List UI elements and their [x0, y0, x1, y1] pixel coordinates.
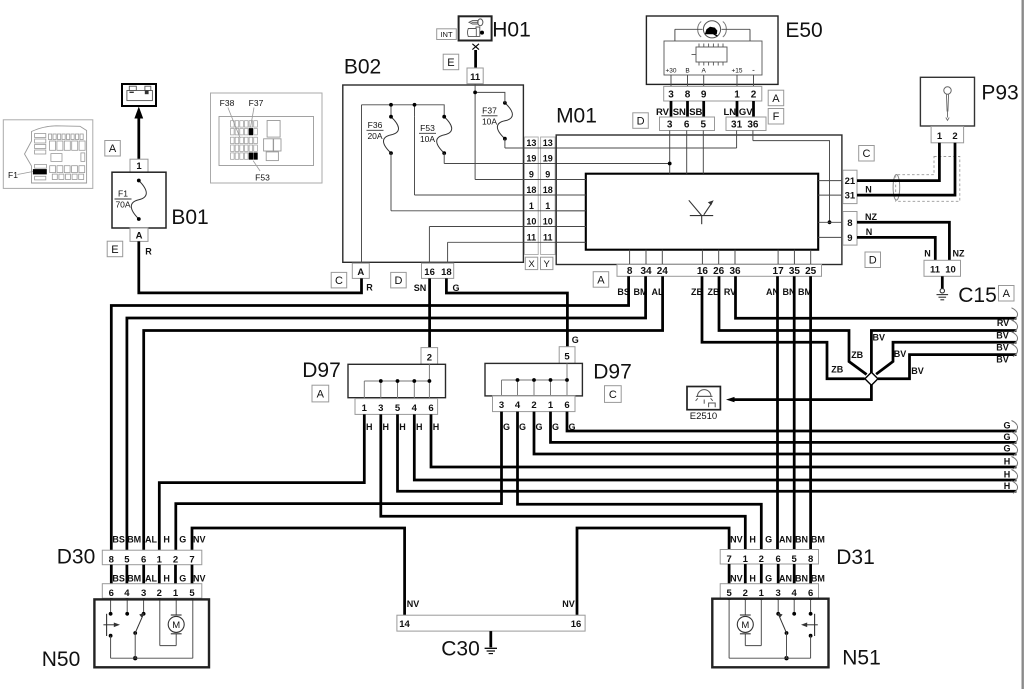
svg-text:31: 31 [731, 120, 743, 131]
svg-text:A: A [109, 143, 117, 155]
shield ellipse on P93 wires [893, 175, 900, 201]
connector strip X (B02-M01) [525, 137, 539, 255]
svg-text:5: 5 [189, 588, 195, 599]
connector D97 left body [348, 364, 446, 397]
ground C15 [941, 276, 944, 288]
svg-text:NV: NV [730, 535, 743, 545]
svg-text:A: A [317, 389, 325, 401]
svg-text:B02: B02 [344, 56, 381, 79]
label box D (B02 pins 16/18) [391, 272, 407, 288]
svg-text:C: C [862, 148, 870, 160]
svg-text:4: 4 [792, 588, 798, 599]
wire BS: M01 pin 8 to D30 pin 8 [111, 276, 628, 550]
wire BN: M01 pin 35 to D31 pin 5 [793, 276, 796, 549]
svg-text:G: G [1003, 421, 1010, 431]
svg-text:G: G [1003, 432, 1010, 442]
svg-text:M: M [172, 620, 180, 631]
switch/motor unit N51 body [712, 599, 828, 668]
label box D (M01 top connector) [633, 113, 649, 129]
svg-text:20A: 20A [367, 131, 382, 141]
label box D (M01 right lower connector) [865, 252, 881, 268]
wire: H01 INT to B02 pin 11 [474, 50, 477, 69]
svg-text:6: 6 [808, 588, 813, 599]
svg-text:NV: NV [407, 599, 420, 609]
svg-text:3: 3 [667, 120, 673, 131]
label box A (D97 left) [312, 385, 329, 402]
svg-text:X: X [528, 259, 535, 270]
svg-text:1: 1 [362, 403, 368, 414]
svg-text:NV: NV [193, 574, 206, 584]
svg-text:14: 14 [399, 619, 410, 630]
label box INT (ignition INT terminal) [437, 29, 457, 40]
svg-text:G: G [503, 422, 510, 432]
svg-text:NV: NV [562, 599, 575, 609]
inset illustration: battery junction unit with fuse F1 highlighted [3, 120, 93, 189]
pins 16 18 of B02 [422, 263, 454, 278]
label box A (E50 connector) [768, 90, 784, 106]
svg-text:P93: P93 [981, 82, 1018, 105]
sensor P93 body and icon [920, 77, 974, 126]
svg-text:6: 6 [428, 403, 433, 414]
wire BV: junction to right edge (3rd, east) [878, 355, 1017, 379]
wire H: D97L pin 5 to right edge [398, 414, 1017, 491]
B02 internal: pin 11 feed to F37 and to pin row 9 [475, 84, 505, 180]
svg-text:LN: LN [723, 107, 736, 118]
fusebox B02 body [343, 85, 524, 262]
svg-text:10A: 10A [482, 117, 497, 127]
E50 icon: IC chip [696, 47, 727, 62]
pins 1 2 of P93 [931, 127, 964, 143]
label box E (B01 lower connector) [107, 241, 123, 257]
pin 2 of D97 left [421, 348, 438, 365]
wires: B02 internal rows to M01 via strips [505, 139, 737, 148]
label box F (E50 connector) [768, 109, 784, 125]
wire: M01 pin 9 N to C15 pin 11 [857, 237, 935, 260]
M01 internal: top pin 31 drop to row 13 [736, 131, 738, 149]
svg-text:6: 6 [684, 120, 690, 131]
wires E50 to M01 (RV SN SB LN GV) [670, 101, 673, 117]
label box C (D97 right) [605, 386, 622, 403]
svg-text:B01: B01 [171, 206, 208, 229]
svg-text:H: H [749, 535, 756, 545]
svg-text:8: 8 [627, 266, 633, 277]
module M01 body [556, 135, 842, 265]
svg-text:3: 3 [668, 90, 674, 101]
wire AN: M01 pin 17 to D31 pin 6 [776, 276, 779, 549]
svg-text:Y: Y [544, 259, 551, 270]
module E50 body [646, 16, 778, 84]
svg-text:1: 1 [157, 554, 163, 565]
wire ZB: M01 pin 16 to junction (west) [702, 276, 865, 379]
svg-text:6: 6 [141, 554, 146, 565]
N51 internal contacts and motor [729, 600, 811, 658]
fuse F37 10A [497, 103, 512, 139]
svg-text:A: A [597, 274, 605, 286]
M01 internal: left pin lines [556, 180, 586, 243]
svg-text:4: 4 [412, 403, 418, 414]
wire: P93 pin 2 to M01 pin 31 (N) [857, 143, 955, 195]
svg-text:C: C [609, 389, 617, 401]
wire G: D97R pin 3 to D30 pin 2 [176, 412, 502, 551]
connector C30 body with pins 14 16 [397, 615, 585, 631]
wire G: D97R pin 2 to right edge [534, 412, 1017, 454]
svg-text:G: G [1003, 444, 1010, 454]
pins 8 34 24 16 26 36 17 35 25 of M01 (bottom) [617, 265, 822, 277]
svg-text:7: 7 [189, 554, 194, 565]
svg-text:16: 16 [424, 267, 435, 278]
svg-text:5: 5 [124, 554, 130, 565]
wire G: B02 pin 18 to D97 pin 5 [446, 278, 567, 346]
wire NV: D30 pin 7 to C30 pin 14 [192, 528, 405, 615]
svg-text:F36: F36 [368, 120, 383, 130]
svg-text:8: 8 [847, 218, 852, 229]
svg-text:9: 9 [701, 90, 707, 101]
svg-text:N: N [865, 185, 872, 195]
svg-text:F1: F1 [118, 189, 128, 199]
svg-text:1: 1 [545, 201, 550, 211]
wire R: B01 to B02 pin A [139, 241, 362, 293]
svg-text:H: H [416, 422, 423, 432]
svg-text:16: 16 [571, 619, 582, 630]
svg-text:G: G [765, 574, 772, 584]
svg-text:ZB: ZB [831, 365, 843, 375]
label box A (C15) [999, 286, 1015, 302]
svg-text:10: 10 [945, 265, 956, 276]
svg-text:35: 35 [789, 266, 801, 277]
svg-text:4: 4 [124, 588, 130, 599]
svg-text:AL: AL [145, 535, 157, 545]
svg-text:N50: N50 [42, 648, 81, 671]
svg-text:8: 8 [808, 554, 813, 565]
svg-text:INT: INT [440, 30, 453, 39]
svg-text:11: 11 [527, 233, 537, 243]
svg-text:3: 3 [776, 588, 781, 599]
svg-text:N: N [866, 227, 873, 237]
svg-text:G: G [179, 574, 186, 584]
svg-text:H: H [383, 422, 390, 432]
svg-text:AN: AN [779, 535, 792, 545]
M01 internal: bottom pin stubs [630, 250, 811, 265]
svg-text:1: 1 [743, 554, 749, 565]
pins 8 5 6 1 2 7 of D30 [102, 550, 202, 565]
wire stubs D31 to N51 [728, 598, 731, 600]
svg-text:18: 18 [441, 267, 452, 278]
svg-text:2: 2 [759, 554, 764, 565]
E2510 courtesy light icon [687, 387, 720, 410]
wire break mark X above H01 wire [472, 44, 479, 50]
M01 inner control unit box [586, 174, 818, 250]
svg-text:+30: +30 [665, 68, 676, 75]
ground at C30 [489, 631, 492, 647]
svg-text:2: 2 [157, 588, 162, 599]
svg-text:BV: BV [894, 349, 907, 359]
fuse F53 10A [437, 117, 452, 153]
svg-text:BV: BV [996, 331, 1009, 341]
fuse F36 20A [384, 117, 399, 153]
svg-text:9: 9 [545, 170, 550, 180]
wire H: D97L pin 3 to D31 pin 1 [381, 414, 746, 549]
svg-text:BS: BS [112, 574, 125, 584]
svg-text:A: A [702, 68, 707, 75]
svg-text:9: 9 [529, 170, 534, 180]
svg-text:G: G [179, 535, 186, 545]
M01 internal: top pin 36 GV to right pin 8 [753, 131, 830, 223]
svg-text:C30: C30 [441, 638, 480, 661]
wire RV: M01 pin 36 to right edge [736, 276, 1017, 318]
svg-text:D97: D97 [302, 359, 341, 382]
M01 internal: top pin 3 drop (junction with row 19) [669, 131, 671, 174]
svg-text:3: 3 [499, 400, 504, 411]
wire G: D97R pin 6 to right edge [567, 412, 1017, 431]
pins 7 1 2 6 5 8 of D31 [720, 550, 818, 565]
svg-text:F37: F37 [249, 98, 264, 108]
wire ZB: M01 pin 26 to junction (northwest) [719, 276, 867, 374]
svg-text:D30: D30 [57, 546, 96, 569]
svg-text:1: 1 [136, 161, 142, 172]
label box A (M01 bottom connector) [593, 272, 609, 288]
svg-text:8: 8 [109, 554, 114, 565]
pins 11 10 of C15 [924, 260, 961, 276]
svg-text:-: - [752, 66, 755, 75]
svg-text:9: 9 [847, 233, 852, 244]
svg-text:18: 18 [543, 185, 553, 195]
svg-text:AL: AL [145, 574, 157, 584]
svg-text:H: H [399, 422, 406, 432]
svg-text:G: G [535, 422, 542, 432]
wire BM: M01 pin 34 to D30 pin 5 [127, 276, 646, 550]
svg-text:5: 5 [792, 554, 798, 565]
svg-text:A: A [772, 93, 780, 105]
wire SN: B02 pin 16 to D97 pin 2 [428, 278, 431, 347]
E50 inner unit box [664, 41, 762, 75]
pin A of B02 [352, 263, 369, 278]
svg-text:5: 5 [701, 120, 707, 131]
svg-text:BM: BM [811, 574, 825, 584]
svg-text:36: 36 [729, 266, 741, 277]
svg-text:1: 1 [173, 588, 179, 599]
svg-text:H: H [1004, 481, 1011, 491]
wire AL: M01 pin 24 to D30 pin 6 [144, 276, 663, 550]
svg-text:BV: BV [873, 333, 886, 343]
pins 3 6 5 of M01 (top) [660, 117, 715, 131]
pins 5 2 1 3 4 6 of D31 (lower row) [720, 584, 818, 599]
svg-text:6: 6 [776, 554, 781, 565]
svg-text:D: D [637, 116, 645, 128]
pins 8 9 of M01 (right) [843, 212, 857, 246]
svg-text:2: 2 [531, 400, 536, 411]
svg-text:1: 1 [734, 90, 740, 101]
connector D97 right body [485, 363, 582, 396]
H01 ignition switch icon (key and lock) [459, 16, 492, 40]
wire BM: M01 pin 25 to D31 pin 8 [809, 276, 812, 549]
wire: M01 pin 8 NZ to C15 pin 10 [857, 222, 949, 260]
svg-text:RV: RV [656, 107, 670, 118]
svg-text:F37: F37 [482, 106, 497, 116]
junction diamond node [865, 372, 878, 385]
svg-text:1: 1 [759, 588, 765, 599]
wire H: D97L pin 6 to right edge [431, 414, 1017, 467]
svg-text:5: 5 [395, 403, 401, 414]
svg-text:GV: GV [739, 107, 753, 118]
svg-text:16: 16 [697, 266, 709, 277]
svg-text:F53: F53 [255, 173, 270, 183]
svg-text:19: 19 [526, 154, 536, 164]
svg-text:F38: F38 [220, 98, 235, 108]
svg-text:+15: +15 [731, 68, 742, 75]
svg-text:10A: 10A [420, 134, 435, 144]
label box X [525, 257, 537, 269]
svg-text:2: 2 [751, 90, 757, 101]
svg-text:5: 5 [564, 351, 570, 362]
svg-text:E: E [111, 244, 118, 256]
svg-text:C15: C15 [958, 284, 997, 307]
pin 5 of D97 right [559, 347, 575, 364]
wire H: D97L pin 1 to D30 pin 1 [159, 414, 364, 550]
svg-text:A: A [357, 267, 364, 278]
svg-text:BN: BN [795, 574, 808, 584]
svg-text:M01: M01 [556, 105, 597, 128]
svg-text:11: 11 [470, 72, 481, 83]
svg-text:SB: SB [689, 107, 702, 118]
svg-text:H: H [1004, 470, 1011, 480]
right page border [1022, 0, 1024, 689]
svg-text:6: 6 [109, 588, 114, 599]
svg-text:21: 21 [845, 176, 856, 187]
wire H: D97L pin 4 to right edge [414, 414, 1016, 480]
M01 internal: right pin lines 21 31 8 9 [818, 181, 843, 238]
svg-text:26: 26 [713, 266, 725, 277]
svg-text:G: G [519, 422, 526, 432]
label box C (B02 pin A) [331, 272, 347, 288]
svg-text:19: 19 [543, 154, 553, 164]
svg-text:10: 10 [526, 217, 536, 227]
svg-text:8: 8 [685, 90, 691, 101]
svg-text:NZ: NZ [865, 212, 877, 222]
svg-text:BV: BV [996, 355, 1009, 365]
svg-text:D: D [869, 255, 877, 267]
svg-text:D31: D31 [836, 546, 875, 569]
svg-text:G: G [765, 535, 772, 545]
svg-text:G: G [552, 422, 559, 432]
pin 11 of B02 (top) [467, 68, 483, 84]
svg-text:A: A [136, 230, 143, 241]
svg-text:BV: BV [911, 366, 924, 376]
svg-text:H: H [163, 535, 170, 545]
svg-text:F1: F1 [8, 170, 18, 180]
D97 right internal bus [502, 363, 568, 396]
svg-text:34: 34 [640, 266, 652, 277]
svg-text:NZ: NZ [953, 249, 965, 259]
svg-text:H: H [749, 574, 756, 584]
svg-text:H: H [433, 422, 440, 432]
svg-text:25: 25 [805, 266, 817, 277]
svg-text:36: 36 [747, 120, 759, 131]
svg-text:RV: RV [997, 318, 1009, 328]
svg-text:D: D [394, 275, 402, 287]
svg-text:D97: D97 [593, 361, 632, 384]
svg-text:13: 13 [543, 138, 553, 148]
svg-text:H: H [1004, 457, 1011, 467]
wire BV: junction to right edge (1st) [871, 331, 1016, 373]
svg-text:AN: AN [779, 574, 792, 584]
switch/motor unit N50 body [94, 599, 209, 667]
svg-text:SN: SN [673, 107, 686, 118]
svg-text:A: A [1003, 288, 1011, 300]
pin 1 of B01 [130, 159, 148, 172]
svg-text:E50: E50 [785, 19, 822, 42]
svg-text:N: N [924, 249, 931, 259]
svg-text:R: R [366, 283, 373, 293]
svg-text:5: 5 [726, 588, 732, 599]
wire: junction to E2510 (arrow) [735, 385, 872, 400]
svg-text:2: 2 [173, 554, 178, 565]
pins 6 4 3 2 1 5 of D30 (lower row) [102, 584, 202, 599]
svg-text:G: G [572, 335, 579, 345]
svg-text:2: 2 [743, 588, 748, 599]
svg-text:7: 7 [726, 554, 731, 565]
D97 left internal bus [364, 364, 429, 398]
svg-text:SN: SN [414, 283, 427, 293]
svg-text:G: G [452, 283, 459, 293]
svg-text:13: 13 [526, 138, 536, 148]
svg-text:M: M [741, 620, 749, 631]
svg-text:1: 1 [529, 201, 534, 211]
svg-text:3: 3 [141, 588, 146, 599]
svg-text:BM: BM [127, 535, 141, 545]
svg-text:BM: BM [127, 574, 141, 584]
svg-text:4: 4 [515, 400, 521, 411]
svg-text:H: H [163, 574, 170, 584]
svg-text:24: 24 [657, 266, 669, 277]
svg-text:C: C [335, 275, 343, 287]
wire BV: junction to right edge (2nd, northeast) [876, 342, 1016, 374]
svg-text:6: 6 [564, 400, 569, 411]
svg-text:BN: BN [795, 535, 808, 545]
N50 internal contacts and motor [111, 601, 193, 659]
wire G: D97R pin 1 to right edge [551, 412, 1017, 443]
svg-text:F: F [773, 111, 780, 123]
wire stubs D30 row1 to row2 [110, 565, 113, 584]
svg-text:1: 1 [548, 400, 554, 411]
svg-text:11: 11 [930, 265, 941, 276]
label box E (H01 wire connector) [443, 54, 459, 69]
wire stubs D30 to N50 [110, 598, 113, 600]
pins 31 36 of M01 (top) [726, 117, 766, 131]
svg-text:11: 11 [543, 233, 553, 243]
E50 icon: instrument with signal arcs [703, 21, 720, 38]
shield dashed outline on P93 wires [896, 157, 960, 202]
svg-text:E2510: E2510 [690, 411, 717, 422]
inset illustration: fusebox with F38 F37 F53 highlighted [211, 93, 323, 183]
svg-text:H: H [366, 422, 373, 432]
wire: P93 pin 1 to M01 pin 21 [857, 143, 939, 181]
svg-text:F53: F53 [420, 123, 435, 133]
fuse holder B01 with fuse F1 70A [112, 172, 166, 228]
pins 3 8 9 1 2 of E50 [664, 86, 762, 101]
B02 internal feed bus from pin A [362, 105, 445, 262]
svg-text:BV: BV [996, 342, 1009, 352]
svg-text:R: R [145, 247, 152, 257]
wire NV: C30 pin 16 to D31 pin 7 [577, 528, 729, 615]
label box Y [541, 257, 553, 269]
svg-text:1: 1 [937, 131, 943, 142]
svg-text:BS: BS [112, 535, 125, 545]
wire: B01 pin 1 to battery (arrow up) [137, 118, 140, 160]
label box A (battery feed) [105, 141, 121, 157]
M01 internal symbol: wiper logic [689, 200, 702, 215]
svg-text:3: 3 [378, 403, 383, 414]
battery symbol [122, 84, 156, 106]
